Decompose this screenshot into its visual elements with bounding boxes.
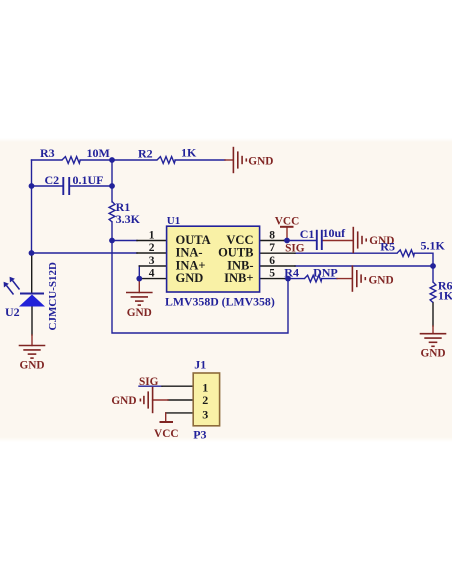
svg-text:2: 2 <box>202 393 208 407</box>
svg-text:DNP: DNP <box>313 266 338 280</box>
svg-text:3.3K: 3.3K <box>116 212 141 226</box>
svg-text:VCC: VCC <box>154 428 178 440</box>
svg-text:10M: 10M <box>87 146 110 160</box>
svg-text:GND: GND <box>19 360 44 372</box>
svg-text:3: 3 <box>202 407 208 421</box>
svg-text:J1: J1 <box>194 358 206 372</box>
svg-text:3: 3 <box>149 255 155 267</box>
svg-text:SIG: SIG <box>285 243 305 255</box>
svg-text:1: 1 <box>149 230 155 242</box>
svg-text:0.1UF: 0.1UF <box>73 173 104 187</box>
svg-text:R3: R3 <box>40 146 55 160</box>
svg-text:U2: U2 <box>5 305 20 319</box>
svg-text:C1: C1 <box>300 227 315 241</box>
svg-text:1K: 1K <box>181 146 197 160</box>
svg-text:4: 4 <box>149 268 155 280</box>
svg-text:5.1K: 5.1K <box>421 239 446 253</box>
svg-text:VCC: VCC <box>275 216 299 228</box>
svg-text:R2: R2 <box>138 147 153 161</box>
svg-text:INB+: INB+ <box>224 271 253 285</box>
svg-text:10uf: 10uf <box>323 226 347 240</box>
svg-text:6: 6 <box>269 255 275 267</box>
svg-text:R4: R4 <box>284 266 299 280</box>
svg-text:GND: GND <box>176 271 204 285</box>
svg-text:U1: U1 <box>167 215 180 227</box>
svg-text:P3: P3 <box>193 428 206 442</box>
svg-text:R5: R5 <box>380 240 395 254</box>
svg-text:GND: GND <box>420 348 445 360</box>
svg-text:GND: GND <box>248 156 273 168</box>
svg-text:GND: GND <box>369 275 394 287</box>
svg-text:CJMCU-S12D: CJMCU-S12D <box>47 262 59 330</box>
svg-text:GND: GND <box>127 307 152 319</box>
svg-text:2: 2 <box>149 242 155 254</box>
svg-text:7: 7 <box>269 242 275 254</box>
svg-text:LMV358D (LMV358): LMV358D (LMV358) <box>165 295 275 309</box>
svg-text:8: 8 <box>269 230 275 242</box>
svg-text:GND: GND <box>111 395 136 407</box>
svg-text:C2: C2 <box>45 173 60 187</box>
svg-text:SIG: SIG <box>139 376 159 388</box>
svg-text:1: 1 <box>202 380 208 394</box>
svg-text:5: 5 <box>269 268 275 280</box>
svg-text:1K: 1K <box>438 289 452 303</box>
